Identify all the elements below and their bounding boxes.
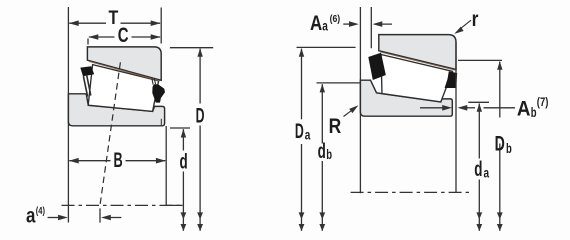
- svg-text:a: a: [305, 127, 311, 142]
- svg-text:r: r: [472, 8, 479, 31]
- svg-text:D: D: [196, 105, 205, 128]
- svg-text:C: C: [118, 24, 129, 47]
- svg-text:A: A: [517, 97, 531, 120]
- svg-text:(6): (6): [330, 13, 341, 25]
- svg-text:a: a: [26, 205, 36, 228]
- svg-text:B: B: [114, 149, 123, 172]
- svg-text:b: b: [531, 105, 537, 120]
- svg-text:d: d: [180, 151, 188, 174]
- svg-text:D: D: [295, 120, 304, 143]
- svg-text:(7): (7): [537, 97, 549, 109]
- svg-text:b: b: [326, 147, 332, 162]
- svg-text:D: D: [495, 132, 505, 155]
- svg-text:R: R: [329, 115, 342, 138]
- svg-text:d: d: [318, 140, 326, 163]
- svg-text:a: a: [322, 18, 328, 33]
- svg-text:A: A: [310, 12, 322, 35]
- svg-text:a: a: [484, 165, 490, 180]
- svg-text:(4): (4): [36, 205, 45, 217]
- svg-text:d: d: [474, 158, 482, 181]
- svg-text:b: b: [506, 141, 512, 156]
